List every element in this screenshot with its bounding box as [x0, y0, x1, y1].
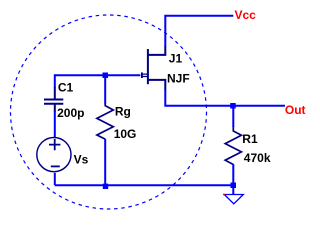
wire C1 top vertical — [54, 74, 56, 87]
capacitor C1 top stub (navy) — [54, 87, 56, 99]
transistor Q1 drain lead (navy) — [148, 47, 165, 55]
svg-text:200p: 200p — [57, 106, 84, 120]
wire Vcc horizontal+vertical to J1 drain — [165, 16, 233, 47]
node junction R1/bottom — [231, 183, 237, 189]
wire Rg top vertical — [104, 75, 106, 103]
svg-text:R1: R1 — [242, 132, 258, 146]
svg-text:Vs: Vs — [74, 152, 89, 166]
transistor Q1 gate arrow — [141, 72, 143, 78]
wire R1 bottom vertical — [232, 164, 234, 185]
boundary dashed circle — [11, 15, 207, 209]
svg-text:NJF: NJF — [167, 72, 190, 86]
resistor R1 zigzag — [225, 127, 241, 165]
wire Rg bottom vertical — [104, 139, 106, 185]
node junction Out/R1 — [230, 103, 236, 109]
node junction Rg/bottom — [103, 184, 108, 189]
transistor Q1 source lead (navy) — [148, 80, 165, 91]
wire C1 bottom to Vs — [54, 112, 56, 138]
wire R1 top vertical — [232, 106, 234, 127]
wire ground stub — [232, 188, 234, 195]
capacitor C1 bottom stub (navy) — [54, 104, 56, 112]
svg-text:Vcc: Vcc — [235, 8, 257, 22]
svg-text:Rg: Rg — [115, 105, 131, 119]
node junction gate/Rg — [103, 73, 109, 79]
transistor Q1 channel bar — [147, 49, 149, 84]
ground red marker dot — [223, 194, 225, 196]
svg-text:Out: Out — [285, 103, 306, 117]
wire gate horizontal — [55, 74, 141, 76]
source Vs circle — [37, 138, 71, 172]
svg-text:C1: C1 — [58, 81, 74, 95]
svg-text:470k: 470k — [244, 151, 271, 165]
wire Vs bottom vertical — [54, 173, 56, 185]
wire bottom rail — [55, 184, 234, 186]
resistor Rg zigzag — [97, 103, 113, 139]
ground symbol — [224, 195, 243, 204]
capacitor C1 plates — [44, 99, 63, 101]
source Vs minus sign — [51, 165, 60, 167]
svg-text:10G: 10G — [114, 127, 137, 141]
svg-text:J1: J1 — [169, 52, 183, 66]
wire source to Out — [165, 90, 285, 106]
source Vs plus sign — [49, 139, 60, 150]
